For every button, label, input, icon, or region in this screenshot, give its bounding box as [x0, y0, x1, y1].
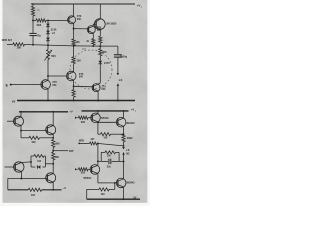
svg-text:10k: 10k: [16, 46, 21, 50]
transistor TR3 ZTX500 (lower output): [92, 84, 100, 92]
diode chain D1-D3 3136 x3: [47, 20, 49, 45]
transistor B2 2N3442: [116, 117, 126, 127]
transistor TR4 2N3055 (output, top): [94, 19, 105, 30]
svg-text:500: 500: [51, 54, 56, 58]
transistor A3 (bottom-left lower-right): [46, 173, 56, 183]
svg-text:47µ: 47µ: [36, 33, 41, 37]
svg-text:100: 100: [31, 141, 36, 144]
capacitor C1 47u (left column): [32, 20, 34, 33]
node on output line: [92, 45, 94, 47]
wire TR5 collector to TR6 base: [48, 75, 67, 77]
wire B3 collector down: [97, 174, 99, 183]
resistor R5 1k (TR2 emitter): [92, 33, 94, 39]
parallel R/D network (box, bottom-left): [30, 156, 32, 167]
wire B3 emitter riser: [97, 144, 99, 166]
node TR6 emitter / TR3 base: [73, 80, 75, 86]
resistor RA3 680: [52, 152, 55, 160]
svg-text:+V: +V: [69, 110, 73, 114]
svg-text:TIP30C: TIP30C: [83, 177, 91, 180]
wire A2 collector: [52, 134, 54, 140]
transistor B4 2N3442: [116, 178, 126, 188]
wire B2 emitter: [123, 126, 125, 134]
svg-text:0R22: 0R22: [127, 137, 133, 140]
wire box to output column: [45, 163, 53, 165]
node TR5 collector: [47, 75, 49, 77]
wire to TR3 base: [74, 85, 94, 88]
node A (R1/R2 junction): [32, 19, 34, 21]
wire A2 emitter to +V: [52, 112, 54, 126]
node TR1 emitter / TR2 base: [73, 23, 75, 28]
svg-text:NFB: NFB: [79, 140, 84, 143]
svg-text:LS: LS: [119, 78, 123, 82]
resistor RB3 100 (bottom): [114, 183, 116, 190]
wire A1 base stub: [7, 120, 15, 122]
svg-text:5k6: 5k6: [37, 23, 42, 27]
wire B2 collector to +Vs: [123, 111, 125, 118]
transistor TR1 ZTX300 (top, first stage): [68, 16, 76, 24]
svg-text:2176: 2176: [104, 62, 110, 65]
svg-text:100: 100: [101, 193, 106, 196]
resistor R NFB 10k (horizontal): [7, 43, 13, 45]
wire TR3 emitter: [98, 83, 100, 84]
wire TR2 collector to 2N3055 base: [93, 24, 96, 26]
input arrow and resistor 330 (B3 base): [75, 168, 77, 170]
svg-text:+V: +V: [137, 4, 141, 8]
wire TR1 collector to +Vs: [73, 4, 75, 16]
resistor RA2 680: [52, 140, 55, 148]
preset RV1 500 (vertical with arrow): [47, 45, 49, 49]
svg-text:330: 330: [81, 172, 86, 175]
svg-text:68R: 68R: [82, 49, 87, 51]
wire B4 collector to 0V: [123, 187, 125, 199]
svg-text:330: 330: [81, 121, 86, 124]
transistor TR5 ZTX504 (input stage): [41, 80, 51, 90]
svg-text:NFB 4k7: NFB 4k7: [2, 38, 13, 42]
node on output line: [73, 45, 75, 47]
svg-text:2N 3055: 2N 3055: [106, 21, 117, 25]
transistor TR2 ZTX300 (driver): [87, 26, 95, 34]
svg-text:100: 100: [31, 194, 36, 197]
scanned paper background: [0, 0, 150, 206]
wire output to C2: [100, 45, 118, 47]
+V rail (bottom-left circuit): [19, 111, 68, 113]
wire B1 emitter to +Vs: [97, 111, 99, 114]
svg-text:22n: 22n: [107, 165, 112, 168]
transistor A2 (bottom-left): [46, 125, 56, 135]
resistor RB1 100 (horizontal): [98, 133, 101, 135]
input arrow and resistor 330 (B1 base): [75, 117, 77, 119]
wire riser to box: [98, 160, 101, 162]
parallel R/C network (box, bottom-right): [100, 152, 102, 161]
svg-text:100: 100: [75, 41, 80, 44]
svg-text:LS: LS: [126, 149, 130, 152]
node NFB/C1 junction: [32, 44, 34, 46]
wire A4 emitter: [20, 172, 22, 179]
resistor R3 100 (TR1 emitter): [73, 29, 75, 39]
resistor R2 5k6 (horizontal): [33, 19, 36, 21]
0V rail (bottom-right): [87, 198, 140, 200]
resistor RB2 0R22 (emitter): [122, 134, 125, 142]
svg-text:500: 500: [79, 76, 84, 79]
wire TR3 collector to 0V: [97, 91, 99, 100]
svg-text:+V: +V: [131, 108, 135, 112]
resistor R4b 0R5 (lower output): [99, 46, 101, 49]
resistor R6 100 (mid column): [73, 46, 75, 57]
wire A1 collector to A2 base: [21, 130, 47, 132]
wire TR5 emitter to 0V: [47, 89, 49, 101]
node O/P: [52, 150, 54, 152]
wire B1 collector down: [97, 122, 99, 134]
wire A4 base stub: [5, 166, 16, 168]
svg-text:0V: 0V: [12, 99, 16, 103]
capacitor plate: [108, 159, 110, 164]
wire A4 collector to box: [21, 161, 31, 164]
transistor B3 TIP30C: [90, 165, 100, 175]
svg-text:680: 680: [55, 142, 60, 145]
wire 2N3055 collector to +Vs: [99, 4, 101, 19]
wire TR1 base: [48, 19, 69, 21]
loudspeaker connection LS (top circuit): [117, 57, 119, 74]
svg-text:0R5: 0R5: [102, 51, 107, 54]
svg-text:680: 680: [55, 156, 60, 159]
wire A1 collector down: [20, 126, 22, 138]
svg-text:−V: −V: [63, 186, 67, 190]
svg-text:TIP31C: TIP31C: [101, 117, 109, 120]
node bias chain crossing: [47, 44, 49, 46]
svg-text:8Ω: 8Ω: [126, 153, 129, 155]
wire box to output column: [119, 160, 123, 162]
transistor A4 (bottom-left lower-left): [14, 162, 24, 172]
svg-text:2N3442: 2N3442: [126, 122, 135, 125]
resistor RA1 100 (horizontal): [21, 137, 29, 139]
0V rail (top circuit): [17, 100, 135, 102]
svg-text:4k7: 4k7: [90, 138, 95, 141]
-V rail with resistor RA4 100: [8, 189, 29, 191]
svg-text:500: 500: [101, 88, 106, 91]
wire to output O/P: [53, 150, 68, 152]
svg-text:0V: 0V: [133, 197, 136, 200]
resistor R1 1k (top left vertical): [32, 3, 34, 5]
node B (bias chain top): [47, 19, 49, 21]
loudspeaker connection LS (bottom-right): [122, 147, 125, 149]
node NFB/output: [123, 145, 125, 147]
svg-text:1000µ: 1000µ: [120, 55, 128, 59]
svg-text:100: 100: [77, 59, 82, 62]
wire A1 emitter to +V: [20, 112, 22, 117]
transistor A1 (bottom-left upper): [14, 116, 24, 126]
transistor B1 TIP31C: [91, 113, 101, 123]
capacitor plate: [110, 159, 112, 164]
+Vs rail (bottom-right circuit): [82, 110, 129, 112]
resistor R7 (TR6 emitter to 0V): [73, 86, 75, 89]
wire emitter tee / A3 base: [8, 178, 48, 180]
node output: [99, 45, 101, 47]
+Vs supply rail (top): [31, 3, 135, 5]
svg-text:O/P: O/P: [69, 149, 74, 153]
wire output/feedback line: [25, 45, 101, 47]
diode D4 2176: [99, 56, 101, 61]
wire B3 collector to B4 base: [98, 182, 118, 184]
svg-text:300: 300: [77, 18, 82, 21]
wire to B2 base: [98, 121, 118, 123]
thermal coupling dashed ellipse: [70, 50, 112, 89]
transistor TR6 ZTX500 (pre-driver): [66, 71, 76, 81]
wire down to -V rail: [7, 179, 9, 190]
wire A3 emitter to -V rail: [52, 182, 54, 190]
svg-text:100: 100: [103, 136, 108, 139]
resistor R4a 0R5 (2N3055 emitter): [99, 29, 101, 36]
svg-text:2N3442: 2N3442: [126, 182, 135, 185]
wire to TR2 base: [74, 28, 89, 30]
svg-text:504: 504: [52, 84, 57, 87]
wire input to TR5 base: [11, 84, 42, 86]
